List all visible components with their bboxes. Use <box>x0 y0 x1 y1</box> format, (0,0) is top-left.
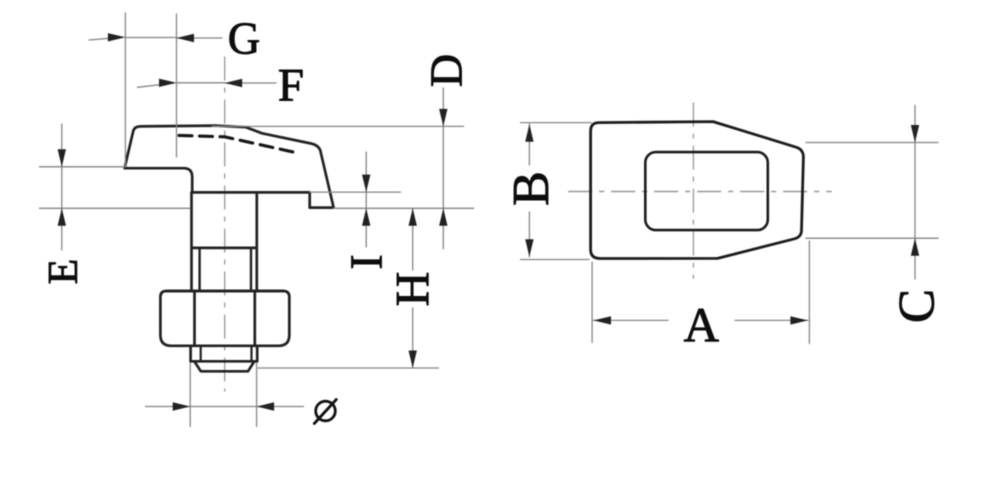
dimension I arrows <box>362 175 370 226</box>
svg-text:F: F <box>278 60 304 112</box>
centerline bolt axis <box>224 57 226 391</box>
diameter arrows <box>173 402 274 410</box>
washer below nut <box>191 346 258 362</box>
bolt boss and shank outer lines <box>192 192 257 291</box>
seat extension line left <box>40 207 191 209</box>
svg-text:H: H <box>386 272 439 307</box>
svg-text:I: I <box>340 254 391 269</box>
vertical centerline <box>692 103 694 278</box>
svg-text:G: G <box>228 14 261 64</box>
dimension A extension lines <box>592 241 809 344</box>
svg-text:C: C <box>890 289 946 323</box>
dimension G line <box>89 37 222 40</box>
diameter extension lines <box>190 363 256 427</box>
hidden edge dashed line <box>179 135 294 152</box>
dimension D extension line <box>212 125 464 127</box>
dimension A arrows <box>594 316 808 324</box>
dimension A line <box>594 319 808 321</box>
dimension G extension lines <box>125 13 176 167</box>
dimension F arrows <box>159 79 242 88</box>
bolt tip chamfer <box>195 362 255 372</box>
bolt bottom extension line <box>258 367 439 369</box>
svg-text:B: B <box>503 171 560 206</box>
dimension B line <box>528 124 530 257</box>
hex nut <box>160 291 289 346</box>
slot hole <box>645 152 768 230</box>
dimension C line <box>914 105 916 279</box>
dimension E arrows <box>58 149 66 226</box>
horizontal centerline <box>569 191 832 193</box>
dimension C arrows <box>911 125 919 256</box>
dimension D arrows <box>439 109 447 226</box>
bolt thread inner lines <box>200 248 251 291</box>
dimension I line <box>365 152 367 247</box>
dimension C extension lines <box>806 143 938 239</box>
dimension H line <box>412 208 414 368</box>
svg-text:A: A <box>684 297 720 352</box>
svg-text:D: D <box>420 54 471 87</box>
dimension G arrows <box>108 33 194 42</box>
diameter dimension line <box>146 406 304 408</box>
dimension D line <box>442 88 444 249</box>
dimension B extension lines <box>521 123 592 260</box>
dimension F line <box>138 83 277 88</box>
dimension B arrows <box>525 124 533 257</box>
dimension E line <box>61 124 63 250</box>
seat extension line right <box>334 207 474 209</box>
clamp plan outline <box>591 122 804 259</box>
foot bottom extension line <box>40 166 126 168</box>
clamp body profile <box>125 126 334 208</box>
step extension line <box>310 191 401 193</box>
washer thread lines <box>201 346 252 362</box>
svg-text:E: E <box>41 259 87 285</box>
dimension H arrows <box>409 208 417 368</box>
nut face lines <box>166 291 283 346</box>
diameter symbol <box>314 400 336 424</box>
